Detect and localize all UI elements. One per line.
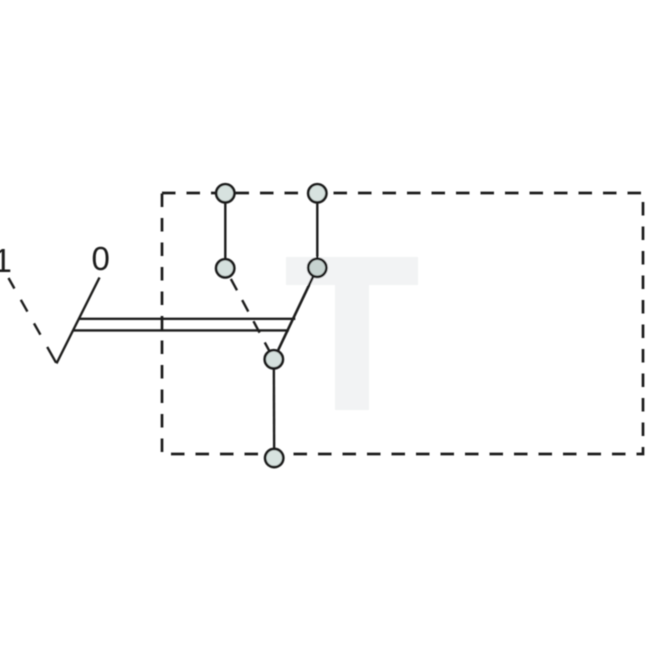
label: position 1 bbox=[0, 242, 12, 279]
mechanical linkage bar (upper) bbox=[79, 318, 295, 320]
actuator lever (position 1, dashed) bbox=[9, 278, 57, 363]
switch blade (open position 1, dashed): contact C to common E bbox=[225, 268, 274, 359]
switch blade (closed position 0): contact D to common E bbox=[274, 268, 318, 360]
terminal A (top left) bbox=[216, 184, 234, 202]
wire: common node E to terminal F bbox=[273, 359, 276, 458]
contact C (position 1) bbox=[216, 259, 234, 277]
wire: terminal A to contact C bbox=[224, 193, 226, 268]
mechanical linkage bar (lower) bbox=[73, 329, 289, 331]
terminal B (top right) bbox=[308, 184, 326, 202]
svg-text:1: 1 bbox=[0, 242, 12, 279]
actuator lever (position 0, solid) bbox=[57, 278, 100, 364]
common node E (blade pivot) bbox=[265, 350, 283, 368]
enclosure (dashed switch body outline) bbox=[162, 193, 643, 454]
terminal F (bottom, on enclosure edge) bbox=[265, 449, 283, 467]
label: position 0 bbox=[92, 240, 110, 277]
wire: terminal B to contact D bbox=[316, 193, 318, 267]
contact D (position 0) bbox=[308, 259, 326, 277]
watermark T bbox=[286, 257, 418, 410]
svg-text:0: 0 bbox=[92, 240, 110, 277]
